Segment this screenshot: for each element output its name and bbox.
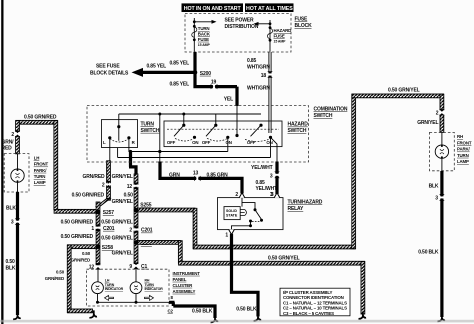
wire 0.50 GRN/YEL band2 to rear [179, 261, 365, 265]
RH front park/turn lamp dashed box [430, 132, 455, 170]
wire WHT/GRN double line from hazard fuse [269, 52, 271, 133]
hazard pair2 pivot riser [215, 114, 217, 125]
turn back fuse lead wire [193, 18, 195, 52]
svg-text:0.50 GRN/RED: 0.50 GRN/RED [72, 193, 105, 199]
hazard pair3 pivot [259, 124, 262, 127]
svg-text:0.50 BLK: 0.50 BLK [236, 307, 257, 313]
svg-text:BLOCK DETAILS: BLOCK DETAILS [90, 71, 129, 77]
svg-text:TURN: TURN [457, 153, 469, 158]
splice S258 [96, 244, 101, 249]
wire GRN/YEL S255 branch right [138, 208, 195, 212]
svg-text:HOT AT ALL TIMES: HOT AT ALL TIMES [246, 6, 293, 12]
wire GRN/YEL down leg [193, 208, 197, 248]
svg-text:SWITCH: SWITCH [141, 128, 160, 134]
wire from R contact down [129, 138, 131, 152]
relay pin 1 [229, 229, 235, 234]
relay pin 2 [239, 193, 245, 198]
connector 13 on GRN wire [194, 175, 201, 181]
LH turn indicator label [105, 279, 124, 291]
svg-text:FUSE: FUSE [198, 37, 209, 42]
svg-text:15 AMP: 15 AMP [274, 40, 287, 44]
turn switch contact arc [110, 139, 129, 143]
connector 12 on GRN/YEL wire [133, 183, 139, 190]
turn switch pivot riser [118, 114, 120, 127]
svg-text:INSTRUMENT: INSTRUMENT [173, 271, 201, 276]
svg-text:C3 – BLACK – 5 CAVITIES: C3 – BLACK – 5 CAVITIES [283, 311, 334, 316]
wire BLK from RH lamp [440, 171, 443, 317]
svg-text:FRONT: FRONT [457, 140, 472, 145]
relay bottom rail to pin1 [232, 221, 251, 230]
svg-text:RED: RED [2, 146, 13, 152]
svg-text:0.85 YEL: 0.85 YEL [146, 64, 166, 70]
hazard pair2 pivot [214, 124, 217, 127]
header box HOT AT ALL TIMES [245, 3, 294, 12]
wire YEL feed from turn back fuse [195, 52, 237, 106]
wire GRN/RED loop right drop to S257 [54, 121, 58, 210]
svg-text:0.85: 0.85 [247, 58, 257, 64]
relay contact pivot [254, 208, 257, 211]
line A inside combination switch [131, 138, 228, 152]
svg-text:19: 19 [211, 79, 217, 85]
wire 0.50 GRN/YEL right riser [352, 94, 356, 249]
RH front park/turn lamp label [457, 134, 472, 164]
hazard pair1 ON contact [193, 136, 196, 139]
svg-text:1: 1 [225, 233, 228, 239]
svg-text:TURN: TURN [34, 174, 46, 179]
svg-text:GRN/RED: GRN/RED [71, 257, 90, 262]
hazard fuse lead wire [269, 20, 271, 52]
svg-text:TURN/HAZARD: TURN/HAZARD [288, 199, 323, 205]
svg-text:GRN: GRN [169, 172, 180, 178]
connector 3 on YEL/WHT wire [274, 172, 280, 179]
svg-text:2: 2 [235, 192, 238, 198]
svg-text:GRN/RED: GRN/RED [82, 174, 105, 180]
svg-text:INDICATOR: INDICATOR [145, 287, 164, 291]
splice S256 [134, 240, 139, 245]
svg-text:PANEL: PANEL [173, 277, 187, 282]
svg-text:BLK: BLK [429, 184, 439, 190]
relay internal wiring [242, 198, 255, 209]
turn switch pivot [117, 125, 120, 128]
svg-text:STATE: STATE [226, 214, 238, 218]
LH front park/turn lamp dashed box [4, 154, 29, 192]
wire YEL/WHT exit from hazard switch [271, 137, 278, 162]
svg-text:TURN: TURN [198, 26, 210, 31]
svg-text:2: 2 [11, 132, 14, 138]
LH front park/turn lamp bulb [11, 154, 24, 192]
riser GRN from feed [159, 114, 161, 162]
wire 0.50 GRN/RED S258 branch left [68, 245, 97, 249]
connector 9 C1 on GRN/YEL to cluster [133, 263, 139, 270]
svg-text:WHT/GRN: WHT/GRN [247, 65, 270, 71]
connector 2 C201 on GRN/YEL wire [133, 226, 139, 233]
wire YEL/WHT thick to relay [275, 162, 278, 195]
wire into LH indicator [97, 269, 99, 282]
wire 0.50 GRN/YEL top run [352, 94, 444, 98]
svg-text:BLK: BLK [6, 266, 16, 272]
svg-text:RELAY: RELAY [288, 206, 305, 212]
svg-text:FUSE: FUSE [274, 33, 285, 38]
svg-text:PARK/: PARK/ [34, 168, 48, 173]
turn/hazard relay box U1 [218, 198, 284, 230]
svg-text:0.50 GRN/YEL: 0.50 GRN/YEL [268, 256, 300, 262]
svg-text:TURN: TURN [141, 121, 155, 127]
svg-text:S255: S255 [140, 202, 151, 208]
connector 19 on YEL wire [211, 84, 218, 90]
svg-text:BLOCK: BLOCK [295, 23, 313, 29]
svg-text:3: 3 [11, 220, 14, 226]
svg-text:3: 3 [270, 173, 273, 179]
svg-text:OFF: OFF [202, 140, 211, 145]
connector 3 on RH BLK wire [439, 194, 445, 201]
svg-text:RH: RH [457, 134, 463, 139]
ground hook cluster BLK [211, 315, 219, 322]
wire GRN/YEL into RH lamp [440, 115, 444, 132]
node A-R [129, 150, 132, 153]
svg-text:2: 2 [129, 228, 132, 234]
LH turn indicator bulb [92, 282, 104, 302]
hazard switch inner dashed line [167, 128, 279, 130]
svg-text:SWITCH: SWITCH [288, 128, 307, 134]
wire into RH indicator [135, 269, 137, 282]
svg-text:0.50: 0.50 [82, 251, 91, 256]
relay contact lever [255, 210, 262, 220]
svg-text:0.50 GRN/RED: 0.50 GRN/RED [61, 234, 94, 240]
turn switch R contact [127, 136, 130, 139]
relay pin 3 [274, 193, 280, 198]
svg-text:FRONT: FRONT [34, 162, 49, 167]
svg-text:0.50 GRN/YEL: 0.50 GRN/YEL [101, 219, 133, 225]
svg-text:INDICATOR: INDICATOR [105, 287, 124, 291]
wire GRN/YEL S256 down leg [178, 241, 182, 264]
svg-text:12: 12 [127, 184, 133, 190]
wire GRN/YEL drop to RH lamp [440, 94, 444, 110]
hazard pair1 arc [175, 138, 194, 141]
RH turn indicator bulb [130, 282, 142, 302]
svg-text:HAZARD: HAZARD [288, 122, 309, 128]
svg-text:HAZARD: HAZARD [274, 28, 292, 33]
svg-text:SOLID: SOLID [226, 209, 237, 213]
wire 0.50 GRN/RED LH lamp loop top [16, 120, 57, 124]
svg-text:ON: ON [192, 140, 198, 145]
svg-text:0.50 GRN/YEL: 0.50 GRN/YEL [388, 87, 420, 93]
ground hook RH BLK [438, 314, 446, 321]
svg-text:18: 18 [261, 73, 267, 79]
svg-text:S200: S200 [200, 71, 211, 77]
hazard pair2 lever [206, 125, 216, 136]
feed line inside combination switch [119, 113, 261, 115]
svg-text:OFF: OFF [167, 140, 176, 145]
svg-text:0.85 YEL: 0.85 YEL [169, 82, 189, 88]
wire GRN thick from combination switch [158, 162, 242, 194]
svg-text:0.50 BLK: 0.50 BLK [418, 249, 439, 255]
riser YEL entry to feed line [236, 104, 238, 114]
svg-text:YEL: YEL [224, 97, 233, 103]
svg-text:LAMP: LAMP [457, 159, 469, 164]
arrow from hazard fuse to see power distribution [254, 22, 271, 26]
wire 0.50 BLK from relay pin1 [230, 234, 258, 317]
instrument panel cluster label [173, 271, 201, 294]
svg-text:S257: S257 [103, 210, 114, 216]
svg-text:ON: ON [225, 140, 231, 145]
wire GRN/RED LH lamp left drop [16, 121, 20, 132]
LH indicator arrow [105, 295, 114, 300]
svg-text:0.50 GRN/YEL: 0.50 GRN/YEL [101, 236, 133, 242]
hazard pair2 ON contact [226, 136, 229, 139]
svg-text:LH: LH [34, 155, 40, 160]
node feed-GRN [158, 113, 161, 116]
turn back fuse F1 [192, 20, 211, 47]
svg-text:ON: ON [266, 140, 272, 145]
LH front park/turn lamp label [34, 155, 49, 185]
svg-text:COMBINATION: COMBINATION [314, 107, 348, 113]
RH turn indicator label [145, 279, 164, 291]
hazard pair2 arc [207, 138, 227, 141]
svg-text:FUSE: FUSE [295, 17, 309, 23]
svg-text:C201: C201 [103, 226, 115, 232]
svg-text:0.50: 0.50 [6, 259, 16, 265]
RH front park/turn lamp bulb [435, 133, 448, 171]
splice S200 [193, 70, 198, 75]
ground hook LH BLK [13, 312, 21, 319]
connector 2 on GRN/RED wire [106, 181, 112, 188]
hazard pair1 pivot [182, 124, 185, 127]
turn switch box [102, 120, 138, 148]
wire GRN/RED column to S258 [96, 202, 100, 266]
svg-text:GRN/YEL: GRN/YEL [417, 120, 438, 126]
hazard pair3 ON contact [269, 136, 272, 139]
svg-text:C201: C201 [141, 228, 153, 234]
off-page hook GRN/RED rear [89, 310, 97, 317]
svg-text:0.50 GRN/RED: 0.50 GRN/RED [24, 115, 57, 121]
I/P cluster note box [280, 288, 350, 316]
ground hook relay BLK [254, 314, 262, 321]
wire 0.50 GRN/YEL rear drop [361, 262, 365, 315]
RH indicator arrow [145, 295, 154, 300]
svg-text:C2: C2 [168, 308, 174, 313]
svg-text:1: 1 [91, 226, 94, 232]
svg-text:DISTRIBUTION: DISTRIBUTION [225, 24, 259, 30]
hazard pair1 pivot riser [183, 114, 185, 125]
wire GRN/YEL S256 branch right [138, 241, 181, 245]
node A-GRN [158, 150, 161, 153]
fuse block dashed box [185, 14, 291, 52]
hazard switch box [164, 121, 282, 147]
line B inside combination switch [118, 138, 271, 158]
wire 0.50 GRN/RED left column down [67, 245, 71, 313]
svg-text:GRN/YEL: GRN/YEL [112, 174, 133, 180]
svg-text:GRN/YEL: GRN/YEL [112, 199, 133, 205]
svg-text:0.50: 0.50 [56, 270, 65, 275]
hazard pair3 arc [245, 139, 269, 141]
relay contact dots [260, 219, 263, 222]
wire BLK from cluster [169, 302, 215, 318]
svg-text:3: 3 [435, 195, 438, 201]
svg-text:0.50 GRN/RED: 0.50 GRN/RED [61, 219, 94, 225]
svg-text:2: 2 [436, 110, 439, 116]
svg-text:GRN/YEL: GRN/YEL [112, 250, 133, 256]
svg-text:SEE FUSE: SEE FUSE [96, 64, 120, 70]
page bottom gray band [0, 320, 474, 323]
svg-text:GRN/RED: GRN/RED [45, 276, 64, 281]
connector 3 on LH BLK wire [15, 218, 21, 225]
wire 0.50 GRN/YEL band1 to right loop [193, 245, 355, 249]
svg-text:3: 3 [271, 192, 274, 198]
node feed-pair1 [182, 113, 185, 116]
svg-text:YEL/WHT: YEL/WHT [251, 165, 273, 171]
hazard pair1 lever [174, 125, 184, 136]
page left border bar [1, 0, 3, 324]
svg-text:ASSEMBLY: ASSEMBLY [173, 289, 196, 294]
solid state box [224, 207, 240, 220]
svg-text:0.50 BLK: 0.50 BLK [192, 308, 213, 314]
svg-text:2: 2 [102, 182, 105, 188]
indicator common ground line [98, 301, 170, 303]
connector 12 on GRN/RED to cluster [95, 263, 101, 270]
svg-text:WHT/GRN: WHT/GRN [247, 86, 270, 92]
arrow from turn back fuse to see power distribution [194, 20, 216, 24]
connector 1 C201 on GRN/RED wire [95, 224, 101, 231]
svg-text:0.85 GRN: 0.85 GRN [207, 172, 229, 178]
svg-text:HOT IN ON AND START: HOT IN ON AND START [184, 6, 242, 12]
header box HOT IN ON AND START [182, 3, 244, 12]
instrument panel cluster dashed box [87, 269, 170, 306]
connector 2 at RH front lamp [439, 109, 445, 116]
hazard pair3 OFF contact [235, 134, 238, 137]
splice S257 [96, 210, 101, 215]
hazard fuse F2 [267, 22, 291, 43]
connector 2 at LH front lamp [15, 131, 21, 138]
svg-text:CLUSTER: CLUSTER [173, 283, 194, 288]
connector 18 on WHT/GRN wire [267, 71, 273, 78]
turn switch wiper [118, 127, 120, 141]
svg-text:SWITCH: SWITCH [314, 113, 333, 119]
svg-text:0.85 YEL: 0.85 YEL [169, 61, 189, 67]
wire GRN/RED from turn switch L contact [107, 161, 111, 200]
wire GRN/RED jog left [96, 199, 110, 207]
svg-text:SEE POWER: SEE POWER [225, 18, 254, 24]
wire BLK from LH lamp [16, 192, 19, 315]
svg-text:LAMP: LAMP [34, 180, 46, 185]
svg-text:BACK: BACK [198, 31, 211, 36]
wire from L contact down [109, 138, 111, 161]
combination switch dashed box [87, 106, 309, 162]
svg-text:0.85: 0.85 [256, 180, 266, 186]
svg-text:0.50: 0.50 [124, 193, 134, 199]
wire GRN/RED horizontal into S257 [54, 209, 98, 213]
turn switch L contact [108, 136, 111, 139]
wire GRN/RED into LH lamp [16, 136, 20, 153]
arrow wire to see fuse block details [132, 68, 196, 77]
wire 0.50 GRN/RED bottom run to rear [68, 309, 93, 313]
svg-text:PARK/: PARK/ [457, 147, 471, 152]
splice S255 [134, 208, 139, 213]
off-page hook GRN/YEL rear [359, 312, 367, 319]
wire GRN/YEL thick elbow from turn switch R [129, 152, 136, 176]
svg-text:15 AMP: 15 AMP [198, 43, 211, 47]
wire GRN/YEL column [134, 174, 138, 264]
hazard pair3 feed from YEL [236, 114, 238, 135]
svg-text:YEL/WHT: YEL/WHT [256, 186, 278, 192]
hazard pair3 lever [251, 125, 262, 136]
svg-text:BLK: BLK [6, 206, 16, 212]
